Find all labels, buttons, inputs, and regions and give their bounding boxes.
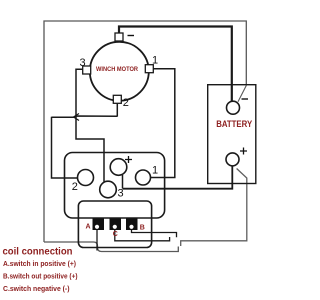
wire junction down to solenoid circle 3: [76, 117, 104, 182]
svg-text:WINCH MOTOR: WINCH MOTOR: [96, 66, 138, 73]
label plus (solenoid): [125, 156, 132, 163]
coil terminal C: [110, 219, 122, 231]
battery plus label: [240, 148, 247, 155]
svg-text:3: 3: [118, 187, 124, 199]
wire motor terminal 3 down: [76, 69, 83, 116]
coil terminal B: [126, 219, 138, 231]
motor terminal top: [115, 33, 123, 41]
wire left drop to solenoid circle 2: [52, 117, 78, 178]
arrowhead at junction: [74, 114, 80, 121]
svg-text:C.switch negative (-): C.switch negative (-): [3, 284, 70, 293]
label minus (motor top): [128, 35, 135, 37]
frame bottom with jog: [44, 242, 178, 252]
battery minus terminal: [227, 101, 240, 114]
svg-text:B.switch out positive (+): B.switch out positive (+): [3, 271, 78, 280]
solenoid block: [65, 153, 165, 219]
wire solenoid plus down to long horizontal: [122, 175, 124, 189]
motor terminal right: [145, 65, 153, 73]
wire junction horizontal: [52, 116, 118, 117]
svg-text:1: 1: [152, 54, 158, 66]
svg-text:2: 2: [123, 97, 129, 109]
wire motor terminal 2 down: [116, 97, 118, 117]
long horizontal wire to battery plus: [123, 166, 233, 189]
solenoid circle 2: [78, 170, 94, 186]
svg-text:A.switch in positive (+): A.switch in positive (+): [3, 259, 76, 268]
motor circle: [90, 42, 149, 101]
wire motor terminal 1 to solenoid circle 1: [151, 69, 175, 178]
wire B terminal: [132, 229, 177, 237]
solenoid circle 1: [136, 170, 151, 185]
svg-text:B: B: [140, 224, 145, 231]
svg-text:coil connection: coil connection: [3, 246, 73, 258]
wire A terminal: [96, 229, 98, 251]
svg-text:2: 2: [72, 181, 78, 193]
frame diagonal into battery minus: [238, 86, 246, 102]
svg-text:C: C: [113, 231, 118, 238]
coil terminal A: [93, 219, 105, 231]
solenoid circle plus: [110, 159, 127, 176]
svg-text:3: 3: [80, 57, 86, 69]
solenoid circle 3: [100, 181, 117, 198]
motor terminal bottom: [113, 95, 121, 103]
frame border (gray outline loop): [44, 21, 246, 242]
wire motor top to battery minus: [119, 27, 232, 102]
battery plus terminal: [226, 153, 239, 166]
battery plus wire down-right to connector: [181, 169, 247, 247]
motor terminal left: [83, 66, 91, 74]
battery minus label: [242, 98, 249, 100]
battery rectangle: [208, 85, 256, 184]
svg-text:BATTERY: BATTERY: [216, 119, 253, 130]
wire C terminal: [115, 229, 170, 241]
svg-text:A: A: [86, 224, 91, 231]
svg-text:1: 1: [152, 165, 158, 177]
coil connection block: [78, 201, 151, 248]
